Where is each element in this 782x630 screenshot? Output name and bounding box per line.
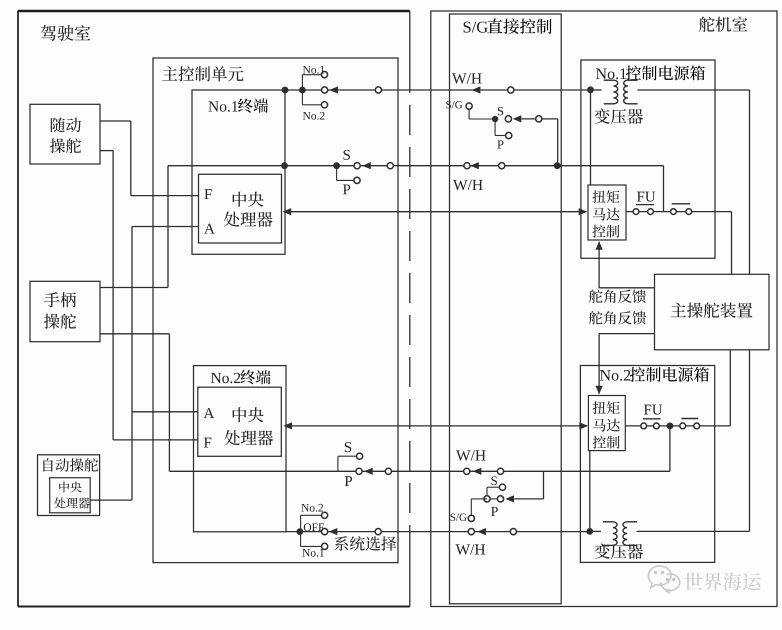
wire FU2 up to main steering gear: [729, 350, 731, 426]
watermark wechat icon: [648, 566, 679, 593]
label P (bottom S/G selector): [491, 507, 498, 516]
wire FU1 output down to main steering gear: [731, 212, 733, 275]
label S (S/P No.2): [345, 442, 351, 452]
switch S/G-branch (bottom S/G selector): [471, 499, 487, 515]
box autopilot 自动操舵: [38, 455, 100, 516]
wire S/P No.1 (y=165.7): [168, 165, 664, 167]
wire FU circuit No.1: [626, 211, 732, 213]
box CPU U1 中央处理器: [199, 174, 282, 243]
label 舵机室: [699, 17, 747, 32]
contact S (top S/G selector): [505, 116, 511, 122]
label FU (No.1) with underline: [636, 192, 656, 205]
wire W/H No.1 (y=90): [285, 89, 591, 91]
box S/G direct control S/G直接控制: [450, 14, 562, 604]
label No.1 (system selector): [302, 549, 324, 557]
label U2 中央处理器: [224, 407, 273, 445]
label W/H (second): [453, 180, 483, 190]
label P (S/P No.1): [343, 184, 350, 194]
label No.1 (top selector): [303, 66, 325, 74]
label No.2 (top selector): [303, 112, 325, 120]
label S (bottom S/G selector): [491, 476, 497, 485]
box torque motor control 1 扭矩马达控制: [588, 185, 626, 240]
contact S (S/P No.1): [354, 163, 360, 169]
wire riser junction to S/G selector S contact: [542, 119, 558, 166]
label 随动操舵: [50, 118, 81, 154]
contact S (S/P No.2): [357, 453, 363, 459]
terminal circle wire2 left in S/G box: [464, 163, 470, 169]
label No.1控制电源箱: [596, 66, 705, 81]
junction node S/P pole No.1: [333, 162, 340, 169]
junction node pole (top S/G selector): [492, 116, 498, 122]
arrowhead W/H direction on wire1: [472, 86, 481, 93]
box No.2 control power box No.2控制电源箱: [580, 366, 714, 563]
wire transformer1 right lead: [637, 90, 749, 274]
contact S/G (top S/G selector): [466, 103, 472, 109]
transformer T2 coils: [603, 522, 637, 546]
wire follow-up bottom to F (U2): [100, 151, 198, 440]
label autopilot 中央处理器: [54, 481, 89, 508]
wire lever top to S/P No.1: [100, 287, 168, 289]
terminal circle on wire2 at main-unit edge: [387, 163, 393, 169]
label OFF (system selector): [304, 523, 324, 531]
box steering-gear-room 舵机室: [431, 11, 777, 607]
label 系统选择: [334, 536, 396, 551]
wire pole to P (bottom S/G selector): [490, 498, 497, 500]
fuse contact circle 2 (FU1): [648, 209, 654, 215]
wire CPU1 to torque-motor-control1 (y=211.7): [284, 211, 586, 213]
arrowhead into system selector: [329, 528, 338, 535]
box lever steering 手柄操舵: [30, 281, 100, 341]
label 舵角反馈 (lower): [589, 311, 646, 324]
wire FU2 junction drop to wire5: [669, 426, 671, 471]
breaker bar (No.1): [672, 203, 691, 205]
pin F (U2): [204, 438, 211, 448]
transformer T1 coils: [604, 80, 638, 104]
wire2 drop into FU circuit No.1: [663, 166, 665, 212]
terminal circle on wire1 in S/G box: [508, 87, 514, 93]
label W/H (bottom): [456, 544, 486, 554]
switch S/P No.1 P-branch: [337, 166, 354, 181]
box CPU U2 中央处理器: [198, 387, 281, 456]
label FU (No.2) with underline: [643, 405, 662, 419]
box torque motor control 2 扭矩马达控制: [588, 396, 625, 451]
box wheelhouse 驾驶室: [18, 11, 410, 607]
label W/H (third): [456, 450, 486, 460]
arrowhead W/H direction on wire6: [477, 528, 486, 535]
box follow-up steering 随动操舵: [30, 104, 100, 164]
junction node system selector pole: [297, 528, 304, 535]
contact No.1 (system selector): [322, 543, 328, 549]
box main control unit 主控制单元: [153, 58, 398, 563]
switch system selector No.1/No.2 (top): [302, 75, 321, 105]
arrowhead into torque control 1: [579, 208, 588, 215]
switch S-branch (bottom S/G selector): [487, 487, 499, 496]
wire follow-up top to F (U1): [100, 121, 199, 196]
label 变压器 (No.2): [595, 543, 644, 558]
contact center (top selector): [322, 87, 328, 93]
junction node transformer No.2: [586, 528, 593, 535]
contact P (bottom S/G selector): [497, 496, 503, 502]
label S/G直接控制: [464, 19, 552, 34]
label S (top S/G selector): [498, 107, 503, 115]
label 自动操舵: [43, 458, 98, 471]
label P (S/P No.2): [345, 476, 352, 486]
box No.2 terminal No.2终端: [194, 366, 287, 532]
wire transformer2 to torque control 2: [589, 451, 591, 532]
junction node wire2 to S/G selector: [554, 162, 561, 169]
arrowhead to S contact: [362, 162, 371, 169]
pin A (U2): [204, 408, 215, 418]
breaker contact circle 4 (No.1): [686, 209, 692, 215]
label W/H (top): [452, 73, 482, 83]
wire lever bottom to S/P No.2: [100, 333, 169, 335]
pole contact (bottom S/G selector): [484, 496, 490, 502]
label 驾驶室: [41, 25, 91, 41]
contact P (S/P No.1): [354, 177, 360, 183]
watermark 世界海运: [684, 573, 761, 591]
arrowhead to P (bottom S/G selector): [505, 495, 514, 502]
contact P (top S/G selector): [506, 132, 512, 138]
wire system select / W/H No.2 (y=531.6): [286, 531, 590, 533]
arrowhead to P contact (S/P No.2): [364, 468, 373, 475]
terminal circle wire2 right in S/G box: [499, 163, 505, 169]
contact P (S/P No.2): [356, 468, 362, 474]
junction node transformer No.1: [587, 86, 594, 93]
wire transformer2 left lead: [590, 530, 601, 532]
fuse contact circle 1 (FU2): [641, 423, 647, 429]
breaker bar (No.2): [681, 418, 698, 420]
label S/G (bottom selector): [451, 514, 467, 521]
label P (top S/G selector): [497, 140, 503, 148]
box No.1 control power box No.1控制电源箱: [581, 60, 715, 258]
label S/G (top selector): [446, 101, 462, 108]
label No.2 (system selector): [301, 504, 323, 512]
switch S/P No.2 S-branch: [338, 456, 356, 471]
breaker contact circle 3 (No.2): [680, 423, 686, 429]
terminal circle wire6 right in S/G box: [510, 529, 516, 535]
junction node selector pole No.1: [299, 87, 306, 94]
contact S/G (bottom S/G selector): [468, 515, 474, 521]
label U1 中央处理器: [224, 192, 273, 227]
terminal circle wire6 left in S/G box: [468, 529, 474, 535]
wire transformer1 left lead: [591, 89, 602, 91]
pin F (U1): [204, 189, 211, 199]
terminal circle wire6 at main-unit edge: [375, 529, 381, 535]
fuse contact circle 1 (FU1): [633, 209, 639, 215]
label 扭矩马达控制 (No.1): [592, 190, 619, 237]
terminal circle wire5 right in S/G box: [497, 468, 503, 474]
switch system selector OFF/No.1/No.2: [301, 515, 322, 546]
label 扭矩马达控制 (No.2): [593, 401, 620, 448]
label No.2终端: [211, 370, 271, 384]
contact OFF center (system selector): [322, 529, 328, 535]
terminal circle wire5 left in S/G box: [464, 468, 470, 474]
label 变压器 (No.1): [594, 108, 643, 123]
wire S/P No.2 (y=471.3): [169, 470, 670, 472]
terminal circle wire5 at main-unit edge: [385, 468, 391, 474]
pin A (U1): [204, 224, 215, 234]
wire transformer2 right lead: [637, 350, 750, 532]
label 主操舵装置: [671, 303, 753, 318]
wire rudder feedback to No.2 舵角反馈: [596, 334, 655, 395]
arrowhead into torque control 2: [579, 422, 588, 429]
arrowhead W/H direction on wire5: [473, 468, 482, 475]
box main steering gear 主操舵装置: [655, 274, 770, 350]
arrowhead to S (top S/G selector): [513, 115, 522, 122]
wire5 branch down to bottom S/G selector P feed: [514, 471, 543, 499]
arrowhead into CPU1: [283, 208, 292, 215]
contact S (bottom S/G selector): [499, 484, 505, 490]
breaker contact circle 3 (No.1): [671, 209, 677, 215]
junction node on No.1 terminal corner: [282, 87, 289, 94]
box autopilot CPU 中央处理器: [50, 478, 90, 513]
terminal circle on wire1 at main-unit edge: [375, 87, 381, 93]
label No.2控制电源箱: [600, 367, 709, 382]
label No.1终端: [208, 98, 268, 112]
wire CPU2 to torque-motor-control2 (y=425.9): [285, 425, 587, 427]
wire FU circuit No.2: [625, 425, 730, 427]
wire rudder feedback to No.1 舵角反馈: [596, 241, 655, 288]
wire riser from lever steering to wire2: [167, 166, 169, 288]
label 舵角反馈 (upper): [589, 290, 646, 303]
arrowhead W/H direction on wire2: [470, 162, 479, 169]
wire from junction to S contact (top S/G selector): [521, 118, 542, 120]
terminal circle (top S/G selector feed): [536, 116, 542, 122]
wire riser lever steering to wire5: [168, 334, 170, 472]
label 主控制单元: [162, 66, 243, 81]
junction node on No.1 terminal right edge: [281, 162, 288, 169]
label S (S/P No.1): [344, 150, 350, 160]
junction node FU2 to wheelhouse wire: [667, 423, 674, 430]
arrowhead into CPU2: [283, 422, 292, 429]
switch S/G selector top bracket: [469, 109, 492, 119]
contact No.2 (top selector): [321, 102, 327, 108]
breaker contact circle 4 (No.2): [694, 423, 700, 429]
box No.1 terminal No.1终端: [192, 90, 285, 254]
contact No.1 (top selector): [321, 72, 327, 78]
wire transformer1 to torque control 1: [590, 90, 592, 185]
label 手柄操舵: [44, 292, 76, 329]
arrowhead into top selector: [329, 86, 338, 93]
fuse contact circle 2 (FU2): [654, 423, 660, 429]
contact No.2 (system selector): [322, 512, 328, 518]
wire autopilot to A (U1) and A (U2): [90, 227, 199, 501]
switch P-branch (top S/G selector): [495, 119, 506, 136]
